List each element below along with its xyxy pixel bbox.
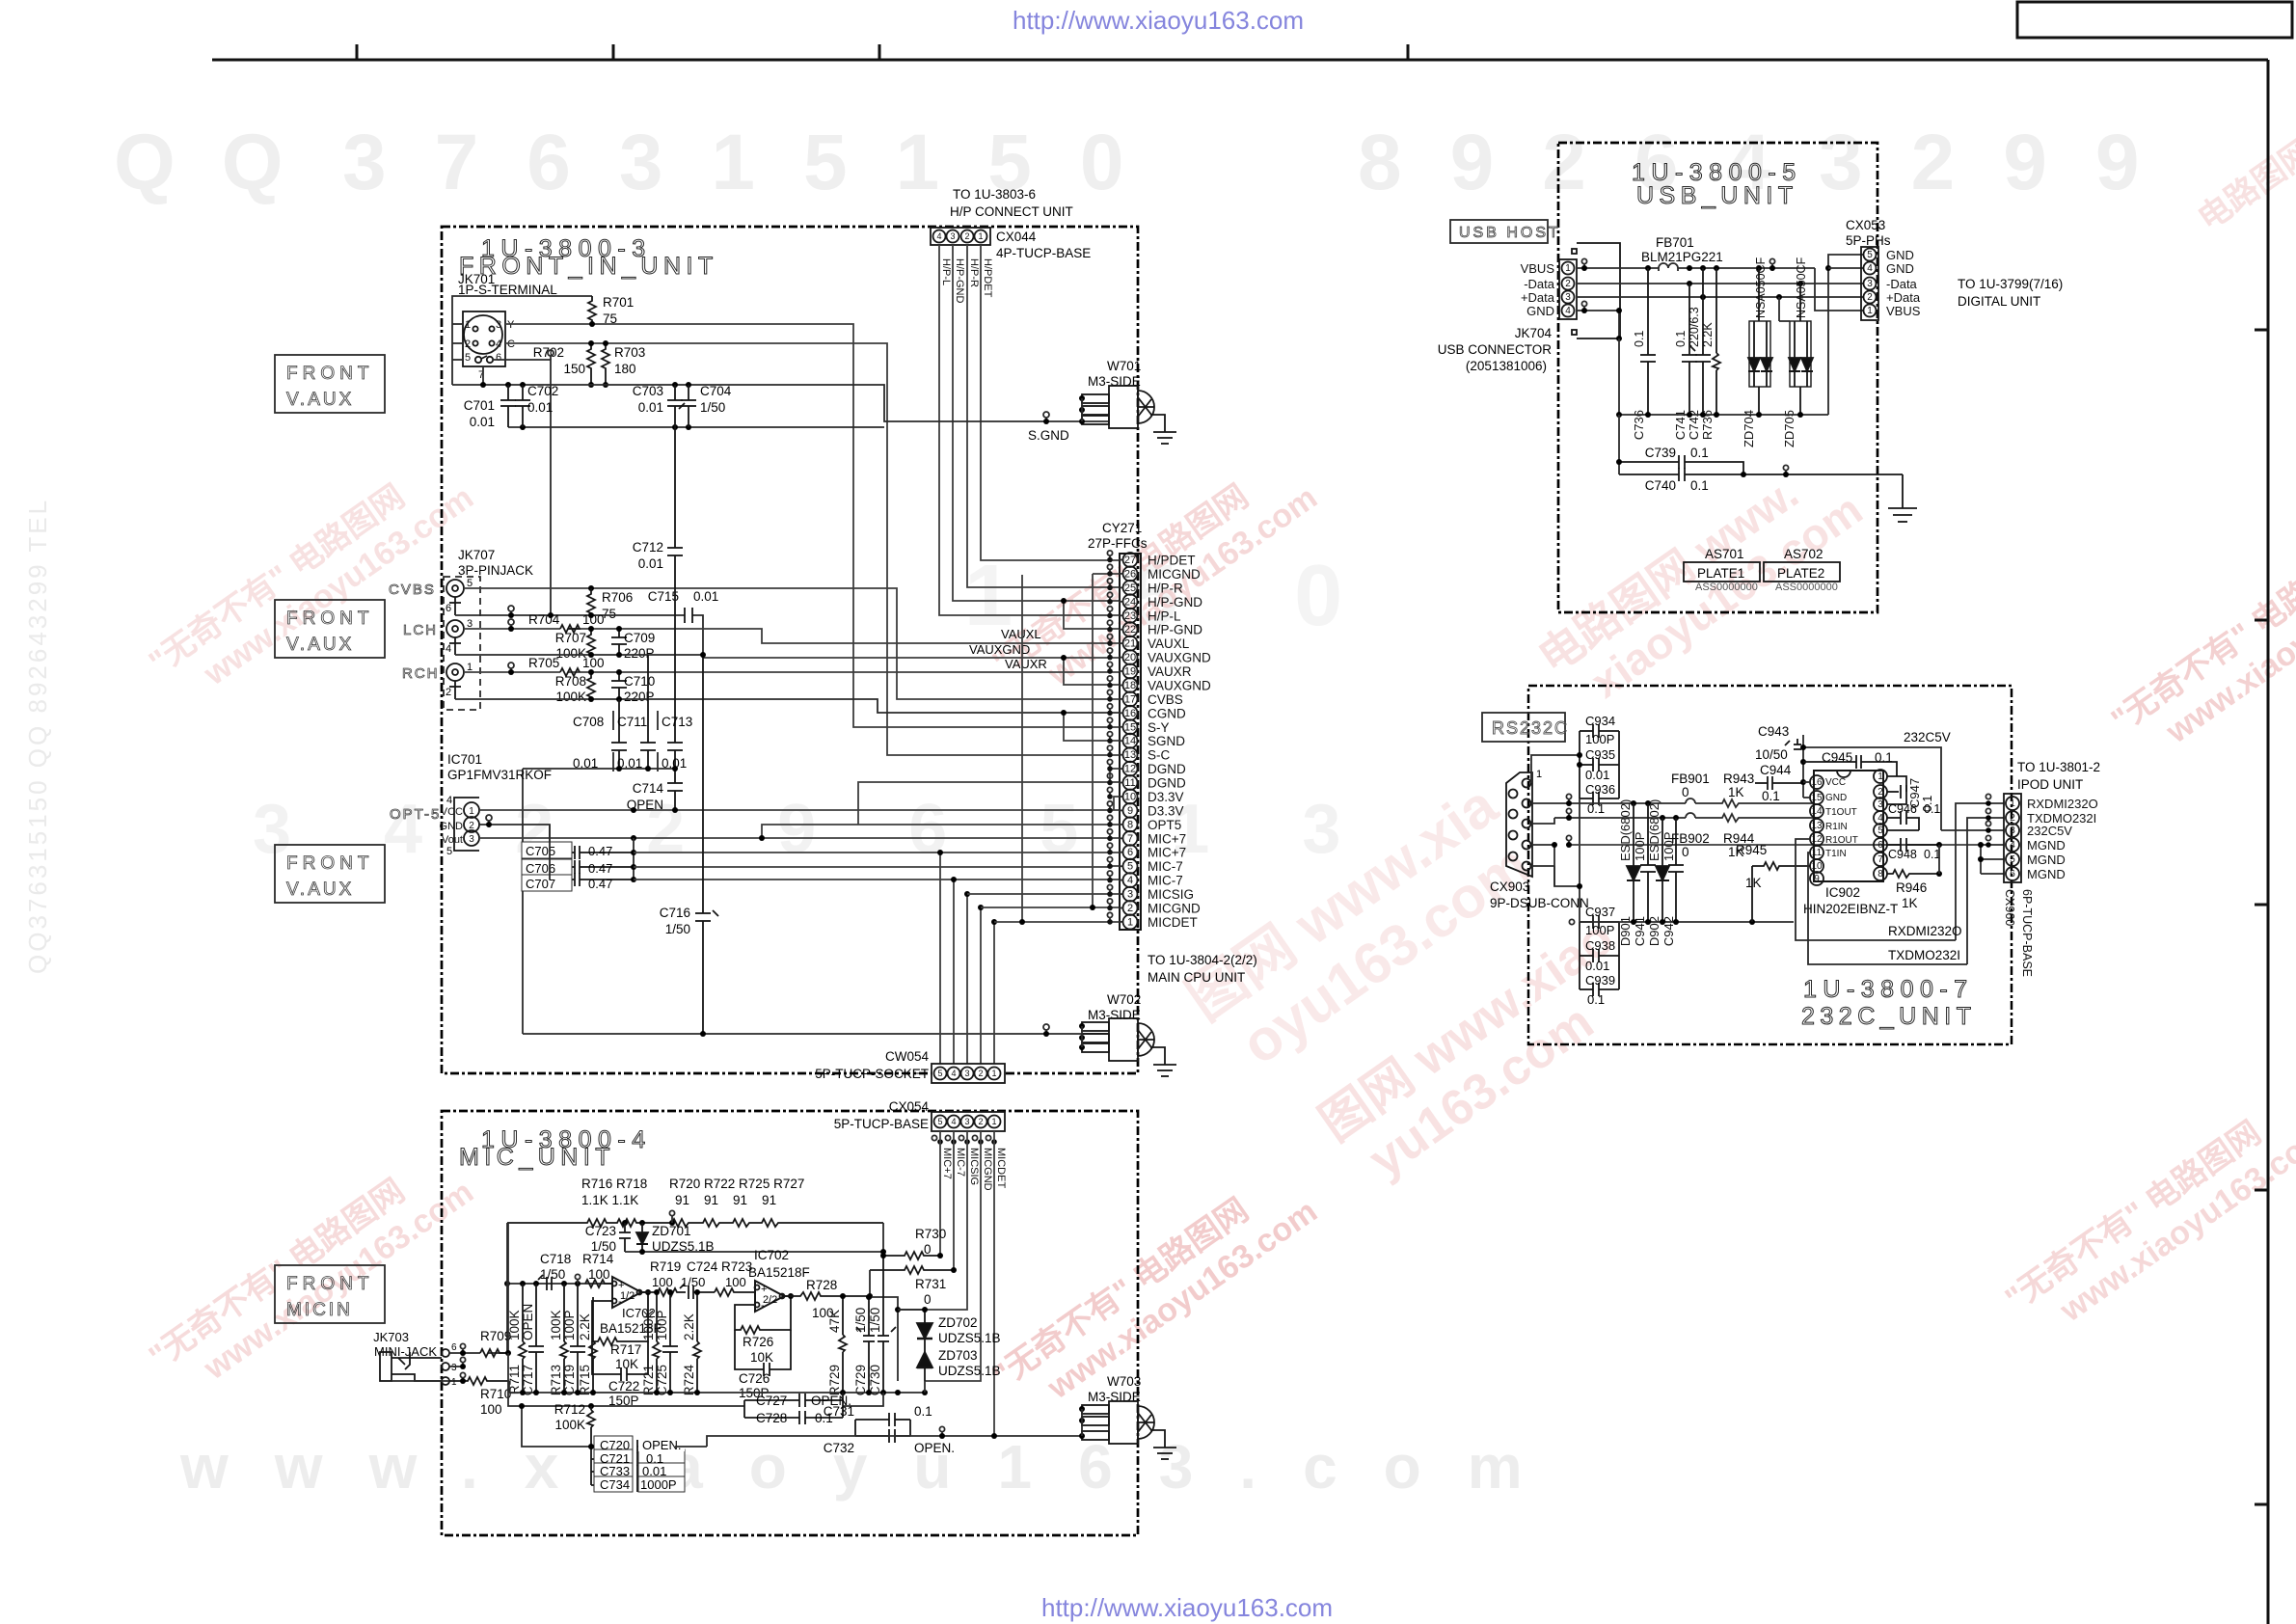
svg-text:5P-TUCP-BASE: 5P-TUCP-BASE	[834, 1117, 929, 1131]
MIC_UNIT	[275, 1099, 1176, 1535]
svg-text:R703: R703	[614, 345, 645, 360]
svg-text:FB902: FB902	[1671, 831, 1710, 846]
svg-text:FRONT: FRONT	[286, 364, 373, 384]
label FRONT V.AUX box 2	[275, 600, 385, 658]
svg-text:C714: C714	[633, 781, 664, 796]
wire line 797	[523, 769, 675, 1034]
capacitor C739 0.1	[1619, 455, 1743, 474]
svg-text:C703: C703	[633, 384, 663, 398]
svg-text:20: 20	[1124, 652, 1136, 663]
svg-text:CX960: CX960	[2003, 889, 2016, 926]
svg-text:10: 10	[1124, 792, 1136, 803]
svg-text:M3-SIDE: M3-SIDE	[1088, 1008, 1141, 1022]
svg-text:19: 19	[1124, 666, 1136, 678]
svg-text:MIC-7: MIC-7	[1148, 874, 1183, 888]
wire MICSIG column	[898, 1131, 967, 1310]
svg-text:0.1: 0.1	[1690, 446, 1709, 460]
svg-text:VAUXGND: VAUXGND	[1148, 651, 1211, 665]
svg-text:14: 14	[1124, 736, 1136, 747]
capacitor C704 1/50 polarized	[679, 385, 696, 427]
columns C729 C730 1/50	[856, 1297, 875, 1393]
CY271 pins	[1107, 551, 1137, 930]
capacitor C715 0.01	[685, 608, 692, 623]
wire jog pin18	[1064, 658, 1119, 685]
svg-text:RXDMI232O: RXDMI232O	[1888, 924, 1962, 938]
svg-text:4: 4	[496, 338, 501, 350]
svg-text:C707: C707	[526, 877, 555, 891]
svg-text:4P-TUCP-BASE: 4P-TUCP-BASE	[996, 246, 1091, 260]
svg-text:3P-PINJACK: 3P-PINJACK	[458, 563, 533, 578]
USB_UNIT	[1438, 143, 2064, 612]
input bus top	[507, 1283, 612, 1285]
wire mid sleeve LCH	[455, 654, 703, 656]
svg-text:10K: 10K	[750, 1350, 773, 1365]
svg-text:10: 10	[1811, 861, 1823, 872]
stub on top row	[669, 1210, 674, 1215]
svg-text:C708: C708	[573, 715, 604, 729]
svg-text:5: 5	[446, 846, 452, 857]
svg-text:MICIN: MICIN	[286, 1300, 353, 1320]
svg-text:14: 14	[1811, 806, 1823, 817]
svg-text:MICSIG: MICSIG	[968, 1148, 980, 1185]
svg-text:MAIN CPU UNIT: MAIN CPU UNIT	[1148, 970, 1245, 985]
svg-text:TO 1U-3799(7/16): TO 1U-3799(7/16)	[1958, 277, 2063, 291]
svg-text:JK707: JK707	[458, 548, 495, 562]
svg-text:C718: C718	[540, 1252, 571, 1266]
svg-text:180: 180	[614, 362, 636, 376]
svg-text:1: 1	[465, 319, 471, 331]
wire MICGND row + vertical	[981, 574, 1119, 907]
svg-text:25: 25	[1124, 582, 1136, 594]
svg-text:R705: R705	[528, 656, 559, 670]
capacitor ladder C720 C721 C733 C734	[591, 1440, 675, 1492]
svg-text:232C5V: 232C5V	[2027, 824, 2072, 838]
svg-text:C938: C938	[1585, 938, 1615, 953]
svg-text:GND: GND	[440, 821, 464, 832]
svg-text:C943: C943	[1758, 724, 1789, 739]
svg-text:H/P-R: H/P-R	[1148, 581, 1183, 595]
svg-text:100: 100	[652, 1275, 673, 1289]
svg-text:IPOD UNIT: IPOD UNIT	[2017, 777, 2083, 792]
svg-text:150: 150	[563, 362, 585, 376]
svg-text:13: 13	[1811, 821, 1823, 831]
svg-text:http://www.xiaoyu163.com: http://www.xiaoyu163.com	[1013, 6, 1304, 35]
svg-text:FRONT: FRONT	[286, 853, 373, 874]
wire bottom bus	[523, 1033, 1109, 1035]
svg-text:1: 1	[1565, 263, 1571, 274]
svg-text:100K: 100K	[555, 690, 586, 704]
svg-text:H/P-GND: H/P-GND	[1148, 623, 1202, 637]
top ruler line	[212, 59, 2268, 62]
ground sym W701	[1150, 415, 1176, 444]
svg-text:1U-3800-7: 1U-3800-7	[1803, 976, 1974, 1003]
wire feed row to R712	[508, 1353, 883, 1406]
ruler tick marks	[356, 44, 359, 60]
node S.GND	[1043, 412, 1049, 418]
svg-text:CX053: CX053	[1846, 218, 1885, 232]
svg-text:1/50: 1/50	[665, 922, 690, 936]
svg-text:C948: C948	[1888, 848, 1917, 861]
svg-text:2: 2	[978, 1117, 983, 1126]
svg-text:R713: R713	[549, 1365, 563, 1395]
svg-text:0.1: 0.1	[1674, 331, 1688, 347]
svg-text:MIC+7: MIC+7	[1148, 846, 1186, 860]
svg-text:0.47: 0.47	[588, 877, 612, 891]
svg-text:26: 26	[1124, 568, 1136, 580]
column R713 100K	[560, 1284, 568, 1393]
svg-text:27: 27	[1124, 555, 1136, 566]
svg-text:GP1FMV31RKOF: GP1FMV31RKOF	[447, 768, 552, 782]
svg-text:DGND: DGND	[1148, 762, 1186, 776]
svg-text:100: 100	[582, 656, 605, 670]
svg-text:100K: 100K	[507, 1310, 522, 1340]
svg-text:2: 2	[2010, 813, 2015, 824]
svg-text:2: 2	[465, 338, 471, 350]
svg-text:C734: C734	[600, 1477, 630, 1492]
wire GND hooks CX053	[1828, 255, 1863, 415]
svg-text:C712: C712	[633, 540, 663, 555]
svg-text:ZD701: ZD701	[652, 1224, 691, 1238]
svg-text:FRONT_IN_UNIT: FRONT_IN_UNIT	[459, 253, 718, 280]
svg-text:W702: W702	[1107, 992, 1141, 1007]
svg-text:H/P-GND: H/P-GND	[954, 258, 965, 304]
svg-text:http://www.xiaoyu163.com: http://www.xiaoyu163.com	[1041, 1593, 1333, 1622]
svg-text:0: 0	[1682, 785, 1689, 799]
svg-text:R720 R722 R725 R727: R720 R722 R725 R727	[669, 1177, 804, 1191]
svg-text:TO 1U-3804-2(2/2): TO 1U-3804-2(2/2)	[1148, 953, 1257, 967]
svg-text:7: 7	[1877, 854, 1883, 865]
pinjack RCH	[446, 663, 464, 699]
svg-text:7: 7	[1127, 833, 1133, 845]
svg-text:C740: C740	[1645, 478, 1676, 493]
wire +Data to ZD705	[1779, 297, 1790, 321]
svg-text:0.1: 0.1	[1762, 789, 1780, 803]
svg-text:OPEN.: OPEN.	[642, 1438, 681, 1452]
wire MICSIG row	[967, 893, 1119, 895]
svg-text:4: 4	[951, 1117, 956, 1126]
capacitor C714 OPEN	[667, 783, 683, 810]
svg-text:3: 3	[451, 1363, 457, 1373]
svg-text:C702: C702	[527, 384, 558, 398]
stub above bus	[575, 1274, 580, 1279]
esd diode D901 C941	[1627, 803, 1640, 922]
svg-text:5: 5	[1127, 861, 1133, 873]
capacitor ladder C934 C935 C936	[1580, 724, 1619, 805]
svg-text:6: 6	[2010, 869, 2015, 880]
svg-text:3: 3	[950, 231, 955, 241]
wire bottom bus 232c	[1580, 921, 1794, 923]
svg-text:1: 1	[1127, 916, 1133, 928]
feedback R726 10K	[735, 1296, 791, 1334]
svg-text:100P: 100P	[1585, 923, 1614, 937]
ground sym W702	[1150, 1047, 1176, 1076]
svg-text:4: 4	[951, 1069, 956, 1078]
op-amp IC702 1/2	[612, 1277, 641, 1308]
svg-text:JK703: JK703	[373, 1330, 409, 1344]
svg-text:CX903: CX903	[1490, 880, 1529, 894]
svg-text:17: 17	[1124, 693, 1136, 705]
svg-text:-Data: -Data	[1886, 277, 1918, 291]
svg-text:C716: C716	[660, 906, 690, 920]
svg-text:MGND: MGND	[2027, 838, 2066, 853]
column R711 100K	[519, 1284, 527, 1393]
svg-text:PLATE2: PLATE2	[1777, 566, 1824, 581]
svg-text:GND: GND	[1886, 248, 1914, 262]
svg-text:ASS0000000: ASS0000000	[1695, 582, 1758, 593]
svg-text:5: 5	[465, 352, 471, 364]
svg-text:4: 4	[1127, 875, 1133, 886]
wire H/P-L	[939, 245, 1119, 615]
stubs under CX054	[932, 1135, 990, 1140]
wire D3.3V pin10 jog	[1114, 797, 1119, 810]
svg-text:QQ: QQ	[114, 119, 330, 206]
svg-text:16: 16	[1811, 777, 1823, 788]
svg-text:C946: C946	[1888, 802, 1917, 816]
resistor R702 150	[587, 343, 595, 385]
svg-text:C706: C706	[526, 861, 555, 876]
svg-text:1: 1	[991, 1117, 996, 1126]
wire MGND pins tie	[1981, 845, 2004, 874]
svg-text:C720: C720	[600, 1438, 630, 1452]
svg-text:24: 24	[1124, 596, 1136, 608]
capacitor C722 150P	[592, 1341, 648, 1381]
svg-text:DIGITAL UNIT: DIGITAL UNIT	[1958, 294, 2040, 309]
svg-text:ESD(6802): ESD(6802)	[1618, 799, 1633, 861]
capacitor C712 0.01	[667, 427, 683, 743]
svg-text:H/P-L: H/P-L	[940, 258, 952, 285]
svg-text:10/50: 10/50	[1755, 747, 1788, 762]
svg-text:R730: R730	[915, 1227, 946, 1241]
wire DGND pin11 pin12	[858, 769, 1119, 825]
wire H/P-R	[967, 245, 1119, 587]
svg-text:1K: 1K	[1745, 876, 1762, 890]
svg-text:LCH: LCH	[403, 622, 438, 638]
svg-text:R706: R706	[602, 590, 633, 605]
svg-text:OPT5: OPT5	[1148, 818, 1181, 832]
wire GND row JK704	[1577, 311, 1619, 338]
svg-text:2.2K: 2.2K	[1701, 322, 1715, 347]
capacitor C705 0.47	[550, 846, 634, 859]
svg-text:3: 3	[496, 319, 501, 331]
wire riser to bias bus	[507, 1223, 509, 1353]
node stub near W702	[1043, 1024, 1049, 1030]
svg-text:MICSIG: MICSIG	[1148, 887, 1194, 902]
svg-text:2: 2	[1565, 279, 1571, 289]
svg-text:100K: 100K	[554, 1418, 585, 1432]
svg-text:V.AUX: V.AUX	[286, 635, 354, 655]
svg-text:C711: C711	[617, 715, 647, 729]
svg-text:1/50: 1/50	[868, 1308, 882, 1333]
wire sleeve bus / C715	[455, 615, 703, 658]
svg-text:AS702: AS702	[1784, 547, 1823, 561]
svg-text:1K: 1K	[1902, 896, 1918, 910]
svg-text:1: 1	[978, 231, 983, 241]
wire MIC column CW054	[940, 853, 994, 1064]
esd diode D902 C942	[1656, 818, 1669, 922]
svg-text:MIC-7: MIC-7	[1148, 859, 1183, 874]
svg-text:6: 6	[451, 1342, 457, 1353]
right border vertical	[2267, 60, 2270, 1624]
svg-text:15: 15	[1811, 793, 1823, 803]
pink rotated watermarks	[143, 132, 2296, 1428]
column R721 100K	[653, 1292, 661, 1393]
svg-text:4: 4	[1867, 263, 1873, 274]
svg-text:2: 2	[978, 1069, 983, 1078]
svg-text:C722: C722	[608, 1379, 639, 1394]
svg-text:3: 3	[469, 834, 474, 845]
svg-text:0.1: 0.1	[1690, 478, 1709, 493]
svg-text:USB HOST: USB HOST	[1459, 225, 1561, 241]
svg-text:R717: R717	[610, 1342, 641, 1357]
connector CX044 4P-TUCP-BASE	[931, 228, 990, 245]
svg-text:MIC_UNIT: MIC_UNIT	[459, 1144, 615, 1171]
column C717 OPEN	[528, 1284, 544, 1393]
svg-text:6: 6	[1127, 847, 1133, 858]
svg-text:TO 1U-3801-2: TO 1U-3801-2	[2017, 760, 2100, 774]
svg-text:R716 R718: R716 R718	[581, 1177, 647, 1191]
svg-text:+Data: +Data	[1521, 290, 1555, 305]
svg-text:ESD(6802): ESD(6802)	[1647, 799, 1661, 861]
capacitor pair C731 0.1 / C732 OPEN	[855, 1413, 910, 1443]
svg-text:FRONT: FRONT	[286, 1274, 373, 1294]
svg-text:MICGND: MICGND	[1148, 567, 1201, 582]
svg-text:VAUXR: VAUXR	[1148, 664, 1192, 679]
svg-text:8: 8	[1877, 869, 1883, 880]
wire ZD top	[898, 1309, 925, 1311]
net labels vertical MIC	[941, 1148, 1007, 1191]
svg-text:R943: R943	[1723, 771, 1754, 786]
svg-text:MGND: MGND	[2027, 853, 2066, 867]
svg-text:VCC: VCC	[1825, 777, 1846, 788]
svg-text:9: 9	[1814, 874, 1820, 884]
svg-text:HIN202EIBNZ-T: HIN202EIBNZ-T	[1803, 902, 1898, 916]
svg-text:RS232C: RS232C	[1492, 718, 1569, 738]
svg-text:1: 1	[451, 1377, 457, 1388]
capacitor C742 220/6.3	[1690, 268, 1711, 415]
capacitor C703 0.01	[667, 385, 683, 427]
svg-text:2.2K: 2.2K	[682, 1313, 696, 1340]
capacitor pair C727 OPEN / C728 0.1	[744, 1393, 843, 1424]
ground sym W703	[1150, 1430, 1176, 1459]
label RS232C box	[1482, 713, 1565, 742]
svg-text:9: 9	[1127, 805, 1133, 817]
svg-text:0.01: 0.01	[693, 589, 718, 604]
svg-text:DGND: DGND	[1148, 776, 1186, 791]
svg-text:3: 3	[964, 1117, 969, 1126]
svg-text:W703: W703	[1107, 1374, 1141, 1389]
svg-text:Vout: Vout	[442, 834, 463, 846]
svg-text:C701: C701	[464, 398, 495, 413]
wire T1OUT row	[1554, 798, 1814, 807]
svg-text:100K: 100K	[549, 1310, 563, 1340]
svg-text:VBUS: VBUS	[1521, 261, 1555, 276]
svg-text:6: 6	[1877, 840, 1883, 851]
svg-text:(2051381006): (2051381006)	[1466, 359, 1547, 373]
svg-text:FB701: FB701	[1656, 235, 1694, 250]
svg-text:3 4 2 2 9 6 5 1 3: 3 4 2 2 9 6 5 1 3	[253, 791, 1377, 868]
svg-text:15: 15	[1124, 721, 1136, 733]
svg-text:VCC: VCC	[441, 806, 463, 818]
wire MIC+7 column	[939, 1131, 941, 1256]
capacitor C702 0.01	[515, 385, 530, 427]
svg-text:1: 1	[1536, 769, 1542, 780]
resistor R703 180	[602, 343, 609, 385]
svg-text:OPEN.: OPEN.	[914, 1441, 955, 1455]
svg-text:H/P-R: H/P-R	[968, 258, 980, 287]
wire R731 left vertical	[869, 1270, 871, 1297]
svg-text:H/P-L: H/P-L	[1148, 609, 1181, 623]
svg-text:12: 12	[1811, 834, 1823, 845]
column R715 2.2K	[589, 1297, 597, 1393]
svg-text:16: 16	[1124, 708, 1136, 719]
stubs CX960	[1985, 794, 1990, 840]
svg-text:MIC+7: MIC+7	[941, 1148, 953, 1179]
wire VCC GND pins	[1803, 782, 1810, 798]
capacitor C710 220P	[611, 672, 627, 699]
svg-text:C724: C724	[687, 1259, 718, 1274]
wire jog pin22	[1064, 601, 1119, 629]
connector JK704 USB	[1559, 243, 1620, 338]
capacitor C726 150P	[735, 1330, 791, 1376]
wire dsub bracket	[1531, 803, 1580, 886]
svg-text:ZD702: ZD702	[938, 1315, 978, 1330]
svg-text:QQ376315150 QQ 892643299 TEL: QQ376315150 QQ 892643299 TEL	[23, 498, 52, 974]
svg-text:FB901: FB901	[1671, 771, 1710, 786]
svg-text:R714: R714	[582, 1252, 614, 1266]
svg-text:CGND: CGND	[1148, 706, 1186, 720]
svg-text:5: 5	[1867, 250, 1873, 260]
svg-text:1: 1	[2010, 798, 2015, 809]
svg-text:USB_UNIT: USB_UNIT	[1636, 182, 1798, 209]
wire MIC-7 pin5 row	[634, 866, 1119, 867]
svg-text:CY271: CY271	[1102, 521, 1142, 535]
svg-text:CVBS: CVBS	[389, 582, 436, 598]
svg-text:IC902: IC902	[1825, 885, 1860, 900]
column R724 2.2K	[693, 1292, 701, 1393]
svg-text:MICDET: MICDET	[1148, 915, 1198, 930]
capacitor C707 0.47	[550, 873, 634, 886]
wire zener bottom row	[625, 1223, 883, 1252]
svg-text:S-C: S-C	[1148, 748, 1171, 763]
svg-text:3: 3	[1867, 279, 1873, 289]
svg-text:2/2: 2/2	[763, 1294, 777, 1306]
svg-text:1: 1	[1877, 771, 1883, 782]
zener ZD703	[917, 1339, 932, 1381]
wire LCH tip R704	[464, 629, 1119, 643]
wire RCH tip R705	[464, 671, 1119, 673]
svg-text:0: 0	[924, 1242, 932, 1257]
svg-text:1.1K 1.1K: 1.1K 1.1K	[581, 1193, 638, 1207]
svg-text:C723: C723	[585, 1224, 616, 1238]
capacitor C741 0.1	[1682, 284, 1697, 415]
svg-text:R719: R719	[650, 1259, 681, 1274]
capacitor C706 0.47	[550, 860, 634, 874]
svg-text:ZD703: ZD703	[938, 1348, 978, 1363]
svg-text:4: 4	[446, 643, 451, 655]
svg-text:V.AUX: V.AUX	[286, 390, 354, 410]
wire lower bus	[508, 426, 884, 428]
wire opamp2 out R728	[784, 1292, 870, 1300]
svg-text:CX054: CX054	[889, 1099, 930, 1114]
svg-text:C704: C704	[700, 384, 732, 398]
capacitor C701 0.01	[500, 385, 516, 427]
wire VCC / D3.3V	[479, 809, 1119, 811]
svg-text:100P: 100P	[562, 1310, 577, 1340]
svg-text:RCH: RCH	[402, 665, 440, 682]
svg-text:100: 100	[725, 1275, 746, 1289]
svg-text:H/P CONNECT UNIT: H/P CONNECT UNIT	[950, 204, 1073, 219]
svg-text:R708: R708	[555, 674, 586, 689]
